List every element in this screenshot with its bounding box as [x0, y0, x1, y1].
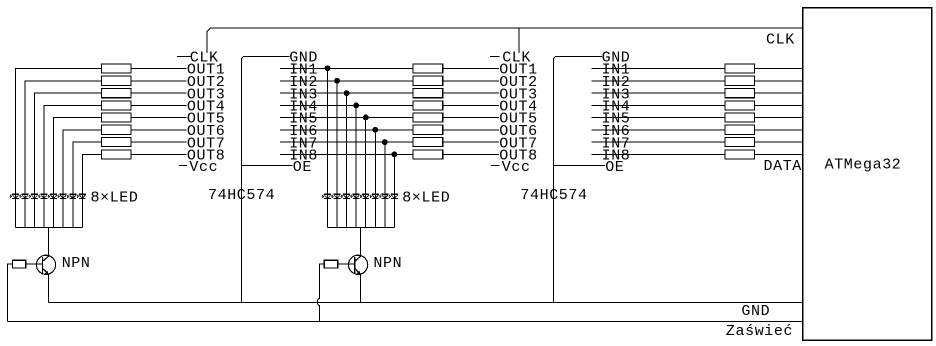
svg-text:NPN: NPN: [373, 255, 402, 272]
LED D1-4: [38, 194, 48, 198]
wire Rb1 to Zaswiec bus: [8, 264, 13, 321]
svg-text:ATMega32: ATMega32: [825, 157, 902, 174]
wire LED2-5 drop: [365, 117, 367, 227]
LED D2-8: [388, 194, 398, 198]
pin U1 IN1 wire to R2-1: [280, 67, 413, 69]
wire LED2-4 drop: [355, 105, 357, 227]
LED D2-5: [360, 194, 370, 198]
resistor R1-3: [101, 89, 131, 98]
wire R1-7 to U1 OUT7: [131, 141, 187, 143]
wire R1-6 to U1 OUT6: [131, 129, 187, 131]
LED D2-2: [331, 194, 341, 198]
wire R1-8 to U1 OUT8: [131, 153, 187, 155]
LED D1-8: [76, 194, 86, 198]
resistor R2-1: [413, 64, 443, 73]
wire Rb2 drop with hop over GND bus to Zaswiec bus: [320, 264, 325, 298]
wire R2-4 to U2 OUT4: [443, 104, 499, 106]
IC U2 74HC574 labels: [490, 50, 725, 303]
LED D1-6: [57, 194, 67, 198]
svg-text:IN8: IN8: [289, 148, 318, 165]
resistor R2-8: [413, 150, 443, 159]
wire Q2 collector from LED2 bus: [359, 227, 361, 257]
resistor R1-7: [101, 138, 131, 147]
wire CLK net: U1 CLK up, top line to ATMega32: [207, 28, 803, 53]
wire R2-7 to U2 OUT7: [443, 141, 499, 143]
LED D2-4: [350, 194, 360, 198]
svg-text:IN8: IN8: [602, 148, 631, 165]
wire Rb1 to Q1 base: [26, 263, 43, 265]
junction dot node IN5/LED2-5: [363, 115, 369, 121]
svg-text:74HC574: 74HC574: [208, 187, 275, 204]
transistor Q1 NPN: [36, 255, 55, 275]
LED D1-2: [19, 194, 29, 198]
wire LED2 cathode bus: [328, 226, 395, 228]
svg-text:NPN: NPN: [62, 255, 91, 272]
wire R3-4 to ATMega32: [755, 104, 803, 106]
resistor R1-4: [101, 101, 131, 110]
wire R3-1 to ATMega32: [755, 67, 803, 69]
resistor R2-5: [413, 113, 443, 122]
pin U1 IN8 wire to R2-8: [280, 153, 413, 155]
wire LED2-3 drop: [346, 93, 348, 227]
wire LED2-2 drop: [336, 81, 338, 228]
LED D1-3: [28, 194, 38, 198]
pin U1 IN3 wire to R2-3: [280, 92, 413, 94]
junction dot node IN3/LED2-3: [344, 90, 350, 96]
pin U1 OE: [241, 165, 292, 167]
resistor R1-5: [101, 113, 131, 122]
pin U2 IN3 wire to R3-3: [592, 92, 725, 94]
resistor R2-3: [413, 89, 443, 98]
wire LED2-8 drop: [393, 154, 395, 227]
LED D1-1: [9, 194, 19, 198]
resistor Rb1 (Q1 base): [12, 260, 25, 268]
LED D1-5: [48, 194, 58, 198]
pin U2 IN7 wire to R3-7: [592, 141, 725, 143]
pin U2 IN1 wire to R3-1: [592, 67, 725, 69]
wire LED2-6 drop: [374, 130, 376, 228]
resistor R1-6: [101, 125, 131, 134]
LED D2-7: [379, 194, 389, 198]
svg-text:8×LED: 8×LED: [91, 189, 139, 206]
wire Rb2 to Q2 base: [338, 263, 355, 265]
wire LED1-8 fan: row 8 to vertical: [82, 154, 101, 227]
wire LED2-7 drop: [384, 142, 386, 227]
junction dot node IN7/LED2-7: [382, 139, 388, 145]
pin U2 IN8 wire to R3-8: [592, 153, 725, 155]
pin U2 IN4 wire to R3-4: [592, 104, 725, 106]
wire CLK branch down to U2 CLK: [518, 28, 520, 53]
resistor R2-6: [413, 125, 443, 134]
resistor R3-2: [725, 76, 755, 85]
wire R2-3 to U2 OUT3: [443, 92, 499, 94]
wire R3-5 to ATMega32: [755, 116, 803, 118]
wire LED1-2 fan: row 2 to vertical: [25, 81, 101, 228]
resistor R1-8: [101, 150, 131, 159]
svg-text:74HC574: 74HC574: [520, 187, 587, 204]
wire R1-1 to U1 OUT1: [131, 67, 187, 69]
resistor R2-4: [413, 101, 443, 110]
junction dot node IN6/LED2-6: [372, 127, 378, 133]
wire LED1-1 fan: row 1 to vertical: [15, 68, 101, 227]
resistor R3-5: [725, 113, 755, 122]
wire R2-1 to U2 OUT1: [443, 67, 499, 69]
LED D1-7: [67, 194, 77, 198]
junction dot node IN2/LED2-2: [334, 78, 340, 84]
wire R3-7 to ATMega32: [755, 141, 803, 143]
wire R2-8 to U2 OUT8: [443, 153, 499, 155]
svg-text:Zaświeć: Zaświeć: [726, 323, 793, 340]
wire GND bus: [48, 301, 802, 303]
LED D2-6: [369, 194, 379, 198]
wire R1-2 to U1 OUT2: [131, 80, 187, 82]
wire Q1 collector from LED1 bus: [47, 227, 49, 257]
wire LED1-3 fan: row 3 to vertical: [35, 93, 102, 227]
pin U1 IN5 wire to R2-5: [280, 116, 413, 118]
wire R1-4 to U1 OUT4: [131, 104, 187, 106]
wire LED1-5 fan: row 5 to vertical: [54, 117, 102, 227]
junction dot node IN8/LED2-8: [392, 152, 398, 158]
pin U1 CLK: [177, 55, 190, 57]
pin U1 GND: [241, 56, 289, 302]
pin U2 IN5 wire to R3-5: [592, 116, 725, 118]
svg-text:8×LED: 8×LED: [402, 189, 450, 206]
wire R2-2 to U2 OUT2: [443, 80, 499, 82]
pin U1 IN4 wire to R2-4: [280, 104, 413, 106]
junction dot node IN4/LED2-4: [353, 103, 359, 109]
wire LED1-4 fan: row 4 to vertical: [44, 105, 101, 227]
resistor R2-2: [413, 76, 443, 85]
wire LED2-1 drop: [327, 68, 329, 227]
LED D2-1: [321, 194, 331, 198]
pin U2 Vcc: [491, 165, 499, 167]
IC U3 ATMega32 box: [803, 8, 932, 341]
resistor R2-7: [413, 138, 443, 147]
svg-text:Vcc: Vcc: [189, 159, 218, 176]
wire Q1 emitter to GND bus: [47, 275, 49, 303]
junction dot node IN1/LED2-1: [325, 66, 331, 72]
wire Zaswiec bus: [8, 320, 803, 322]
pin U1 IN7 wire to R2-7: [280, 141, 413, 143]
svg-text:Vcc: Vcc: [502, 159, 531, 176]
pin U1 Vcc: [179, 165, 187, 167]
resistor Rb2 (Q2 base): [324, 260, 338, 268]
wire R1-3 to U1 OUT3: [131, 92, 187, 94]
wire R2-6 to U2 OUT6: [443, 129, 499, 131]
wire R3-6 to ATMega32: [755, 129, 803, 131]
resistor R1-2: [101, 76, 131, 85]
resistor R3-7: [725, 138, 755, 147]
IC U1 74HC574 labels: [177, 50, 413, 303]
svg-text:CLK: CLK: [766, 31, 795, 48]
transistor Q2 NPN: [349, 255, 368, 275]
wire Q2 emitter to GND bus: [359, 275, 361, 303]
LED D2-3: [341, 194, 351, 198]
wire LED1 cathode bus: [15, 226, 82, 228]
svg-text:GND: GND: [741, 303, 770, 320]
wire R1-5 to U1 OUT5: [131, 116, 187, 118]
wire R3-3 to ATMega32: [755, 92, 803, 94]
wire LED1-6 fan: row 6 to vertical: [63, 130, 101, 228]
resistor R3-6: [725, 125, 755, 134]
resistor R3-1: [725, 64, 755, 73]
pin U2 OE: [553, 165, 605, 167]
pin U2 CLK: [490, 55, 500, 57]
resistor R3-3: [725, 89, 755, 98]
resistor R3-4: [725, 101, 755, 110]
wire R2-5 to U2 OUT5: [443, 116, 499, 118]
wire R3-8 to ATMega32: [755, 153, 803, 155]
pin U2 GND: [553, 56, 602, 302]
pin U2 IN2 wire to R3-2: [592, 80, 725, 82]
pin U1 IN2 wire to R2-2: [280, 80, 413, 82]
pin U2 IN6 wire to R3-6: [592, 129, 725, 131]
resistor R3-8: [725, 150, 755, 159]
pin U1 IN6 wire to R2-6: [280, 129, 413, 131]
resistor R1-1: [101, 64, 131, 73]
wire R3-2 to ATMega32: [755, 80, 803, 82]
wire LED1-7 fan: row 7 to vertical: [73, 142, 102, 227]
svg-text:DATA: DATA: [764, 158, 802, 175]
